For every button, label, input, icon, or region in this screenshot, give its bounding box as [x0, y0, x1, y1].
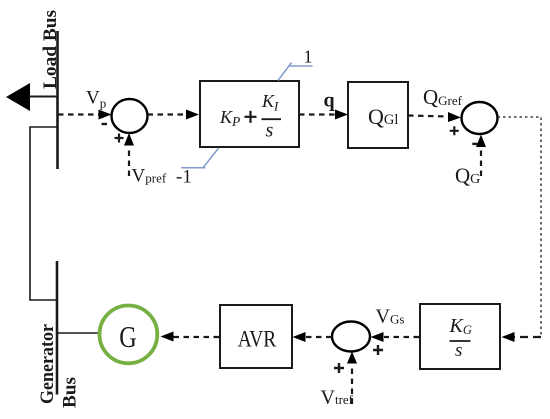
svg-text:s: s: [455, 340, 462, 361]
svg-text:Load Bus: Load Bus: [40, 10, 61, 89]
svg-text:Generator: Generator: [38, 324, 58, 404]
svg-text:s: s: [266, 120, 274, 142]
svg-text:-1: -1: [176, 167, 192, 188]
svg-text:q: q: [324, 90, 335, 112]
svg-text:1: 1: [304, 47, 313, 67]
svg-text:AVR: AVR: [238, 327, 277, 352]
svg-text:Bus: Bus: [61, 377, 81, 408]
svg-text:G: G: [119, 319, 137, 354]
